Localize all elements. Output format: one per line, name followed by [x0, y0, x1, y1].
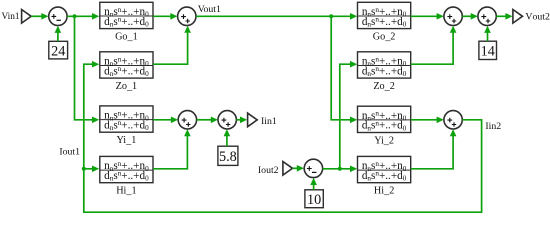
junction and branch wire from feedback riser to Hi_1 input	[82, 166, 99, 173]
wire branch down from Vout1 to Yi_2 input	[331, 16, 357, 123]
wire gain 5.8 up to sum S4	[224, 129, 231, 146]
svg-text:Zo_1: Zo_1	[116, 81, 138, 92]
sum block S5 (++)	[444, 7, 462, 25]
wire gain 10 up to sum S8	[310, 178, 317, 190]
wire sum S8 to Hi_2 with junction	[323, 166, 358, 173]
input port Iout2	[258, 162, 293, 176]
label Vout1	[198, 4, 221, 15]
svg-text:Iout2: Iout2	[258, 165, 279, 176]
wire gain 24 up to sum S1	[55, 26, 62, 42]
transfer function block Hi_2	[358, 156, 411, 196]
svg-text:Iout1: Iout1	[59, 147, 80, 158]
svg-text:Yi_2: Yi_2	[374, 135, 394, 146]
transfer function block Go_1	[100, 2, 153, 42]
svg-text:5.8: 5.8	[219, 149, 237, 165]
wire Vin1 to sum S1	[31, 13, 48, 20]
wire sum S3 to sum S4	[197, 117, 218, 124]
svg-text:Vout1: Vout1	[198, 4, 221, 15]
sum block S3 (++)	[178, 111, 196, 129]
gain block G10 (value 10)	[305, 190, 323, 208]
sum block S8 (Iout2 sum) (+-)	[304, 159, 322, 177]
sum block S4 (++)	[218, 111, 236, 129]
input port Vin1	[1, 10, 31, 24]
wire Zo_2 output up into sum S5 bottom	[411, 26, 457, 65]
wire Zo_1 output up into sum S2 bottom	[153, 26, 191, 65]
wire Hi_2 output up into sum S7 bottom	[411, 129, 457, 169]
svg-text:Hi_1: Hi_1	[116, 186, 136, 197]
transfer function block Hi_1	[100, 156, 153, 196]
transfer function block Yi_2	[358, 106, 411, 146]
sum block S2 (Vout1 sum) (++)	[178, 7, 196, 25]
gain block G14 (value 14)	[479, 41, 497, 59]
svg-text:Go_1: Go_1	[115, 31, 138, 42]
feedback wire sum S7 output down and across bottom to Zo_1 input	[84, 61, 482, 212]
svg-text:Go_2: Go_2	[373, 31, 396, 42]
wire Hi_1 output up into sum S3 bottom	[153, 129, 191, 169]
sum block S7 (++)	[444, 111, 462, 129]
svg-text:Iin1: Iin1	[261, 116, 277, 127]
wire branch up from S8 output to Zo_2 input	[340, 61, 357, 169]
svg-text:14: 14	[481, 44, 495, 60]
wire Go_1 to sum S2	[153, 13, 178, 20]
wire sum S5 to sum S6	[462, 13, 478, 20]
svg-text:Zo_2: Zo_2	[373, 81, 395, 92]
wire sum S6 to output port Vout2	[496, 13, 512, 20]
svg-text:Hi_2: Hi_2	[374, 186, 394, 197]
wire sum S1 to Go_1 with branch junction	[67, 13, 99, 20]
output port Vout2	[513, 10, 550, 24]
output port Iin1	[248, 113, 277, 127]
transfer function block Go_2	[358, 2, 411, 42]
sum block S1 (Vin1 sum) (+-)	[49, 7, 67, 25]
gain block G58 (value 5.8)	[218, 146, 238, 165]
transfer function block Zo_1	[100, 52, 153, 92]
svg-text:Yi_1: Yi_1	[116, 135, 136, 146]
transfer function block Zo_2	[358, 52, 411, 92]
wire sum S2 to Go_2 with junction	[196, 13, 357, 20]
gain block G24 (value 24)	[49, 41, 68, 59]
wire Yi_1 to sum S3	[153, 117, 178, 124]
label Iout1	[59, 147, 80, 158]
wire sum S4 to output port Iin1	[236, 117, 247, 124]
wire Go_2 to sum S5	[411, 13, 444, 20]
svg-text:Iin2: Iin2	[485, 121, 501, 132]
svg-text:Vout2: Vout2	[525, 12, 550, 23]
wire Yi_2 to sum S7	[411, 117, 444, 124]
svg-text:10: 10	[307, 192, 321, 208]
label Iin2	[485, 121, 501, 132]
svg-text:24: 24	[51, 43, 65, 59]
transfer function block Yi_1	[100, 106, 153, 146]
wire gain 14 up to sum S6	[484, 26, 491, 42]
wire Iout2 to sum S8	[293, 165, 305, 172]
svg-text:Vin1: Vin1	[1, 12, 19, 22]
sum block S6 (++)	[478, 7, 496, 25]
wire branch down from S1 output to Yi_1 input	[75, 16, 100, 123]
